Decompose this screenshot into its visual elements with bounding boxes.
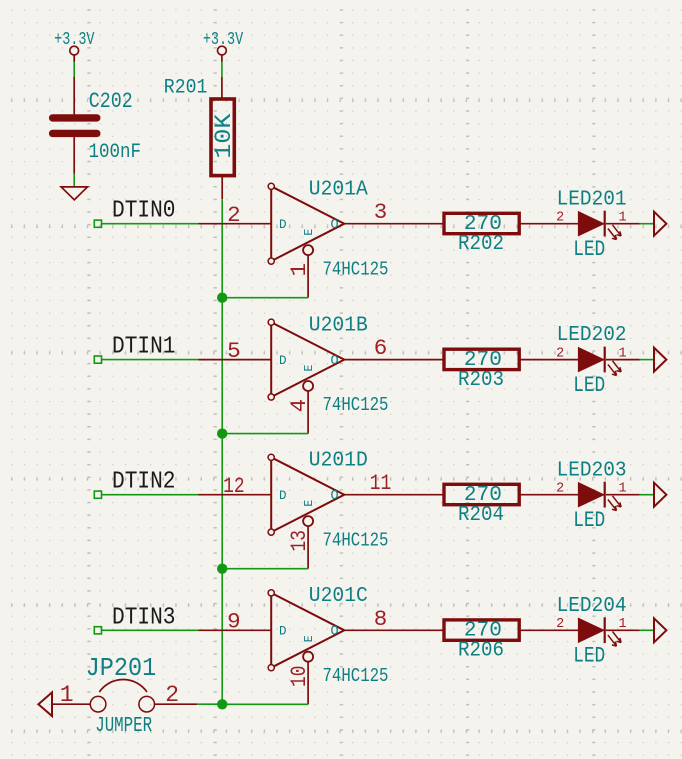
svg-text:U201B: U201B <box>309 314 368 337</box>
svg-text:1: 1 <box>286 263 312 277</box>
svg-text:11: 11 <box>370 470 392 496</box>
svg-text:LED203: LED203 <box>557 459 627 482</box>
svg-text:E: E <box>303 500 316 507</box>
svg-text:9: 9 <box>227 609 241 635</box>
svg-text:R204: R204 <box>458 504 504 527</box>
svg-text:2: 2 <box>556 347 564 362</box>
svg-text:12: 12 <box>223 473 245 499</box>
svg-text:3: 3 <box>374 199 388 225</box>
svg-text:2: 2 <box>227 202 241 228</box>
svg-text:U201D: U201D <box>309 450 368 473</box>
svg-text:R203: R203 <box>458 369 504 392</box>
svg-text:74HC125: 74HC125 <box>323 258 389 280</box>
svg-text:O: O <box>331 218 339 233</box>
svg-text:R202: R202 <box>458 233 504 256</box>
svg-text:U201A: U201A <box>309 179 368 202</box>
svg-text:DTIN3: DTIN3 <box>112 604 176 631</box>
svg-text:6: 6 <box>374 335 388 361</box>
svg-text:D: D <box>279 489 287 503</box>
svg-text:74HC125: 74HC125 <box>323 394 389 416</box>
svg-text:1: 1 <box>60 682 74 708</box>
svg-text:LED: LED <box>573 237 605 262</box>
svg-text:JUMPER: JUMPER <box>95 715 152 738</box>
svg-text:LED202: LED202 <box>557 324 627 347</box>
svg-text:D: D <box>279 218 287 232</box>
svg-text:100nF: 100nF <box>89 141 142 164</box>
svg-text:5: 5 <box>227 338 241 364</box>
svg-text:2: 2 <box>556 482 564 497</box>
svg-text:E: E <box>303 365 316 372</box>
svg-text:2: 2 <box>165 682 179 708</box>
svg-text:D: D <box>279 354 287 368</box>
svg-text:JP201: JP201 <box>86 654 157 683</box>
svg-text:13: 13 <box>286 530 312 552</box>
svg-text:10: 10 <box>286 666 312 688</box>
svg-text:LED: LED <box>573 373 605 398</box>
svg-text:E: E <box>303 635 316 642</box>
svg-text:8: 8 <box>374 606 388 632</box>
svg-text:DTIN2: DTIN2 <box>112 469 176 496</box>
svg-text:74HC125: 74HC125 <box>323 529 389 551</box>
svg-text:O: O <box>331 354 339 369</box>
svg-text:10K: 10K <box>211 113 237 158</box>
svg-text:U201C: U201C <box>309 585 368 608</box>
svg-text:LED: LED <box>573 644 605 669</box>
svg-text:LED: LED <box>573 508 605 533</box>
svg-text:R206: R206 <box>458 640 504 663</box>
svg-text:DTIN0: DTIN0 <box>112 198 176 225</box>
svg-text:74HC125: 74HC125 <box>323 665 389 687</box>
svg-text:4: 4 <box>286 399 312 413</box>
svg-text:O: O <box>331 625 339 640</box>
svg-text:LED201: LED201 <box>557 188 627 211</box>
svg-text:R201: R201 <box>164 77 208 100</box>
svg-text:DTIN1: DTIN1 <box>112 334 176 361</box>
svg-text:2: 2 <box>556 617 564 632</box>
svg-text:E: E <box>303 229 316 236</box>
svg-text:C202: C202 <box>89 89 133 114</box>
svg-text:2: 2 <box>556 211 564 226</box>
svg-text:LED204: LED204 <box>557 595 627 618</box>
svg-text:O: O <box>331 489 339 504</box>
svg-text:D: D <box>279 625 287 639</box>
